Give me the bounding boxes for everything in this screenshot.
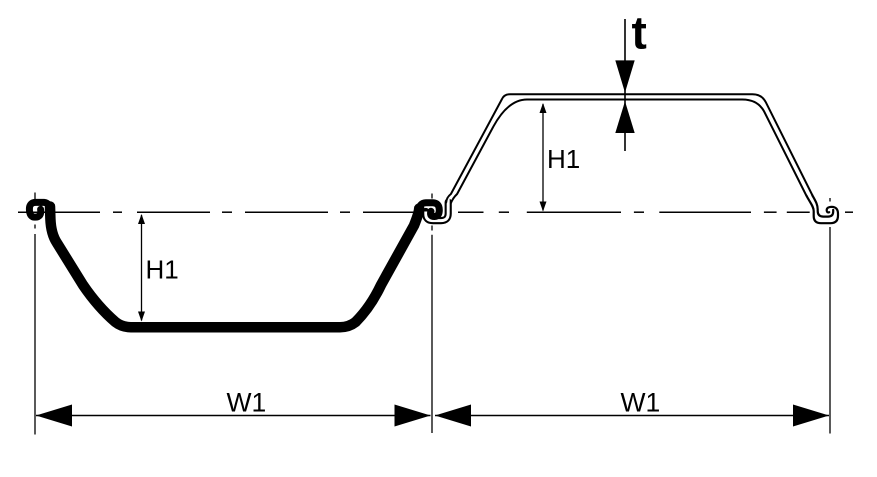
- H1 right top arrow: [540, 103, 547, 113]
- svg-text:H1: H1: [547, 144, 580, 174]
- sheet pile 2 (right, outline): plate inner surface line: [451, 99, 806, 203]
- W1 right arrowhead (points right): [793, 405, 829, 427]
- centerline (dash-dot axis), right part: [458, 211, 853, 213]
- svg-text:H1: H1: [146, 255, 179, 285]
- svg-text:W1: W1: [227, 388, 267, 418]
- H1 left bottom arrow: [138, 312, 145, 322]
- extension line left (x=35): [34, 193, 36, 201]
- svg-text:t: t: [632, 7, 647, 59]
- H1 dimension right: line: [542, 104, 544, 211]
- t lower arrow (points up): [615, 101, 634, 133]
- svg-text:W1: W1: [621, 388, 661, 418]
- sheet pile 2 (right, outline): middle interlock wrap, white core: [426, 197, 448, 221]
- sheet pile 2 (right, outline): plate outer surface line: [446, 94, 812, 202]
- sheet pile 1 (left, solid): middle interlock hook: [419, 203, 439, 217]
- sheet pile 2 (right, outline): middle interlock wrap, black stroke: [426, 202, 448, 221]
- H1 right bottom arrow: [540, 202, 547, 212]
- W1 left arrowhead (points left): [36, 405, 72, 427]
- H1 dimension left: line: [141, 215, 143, 321]
- W1 left-dim right arrowhead (points right): [395, 405, 431, 427]
- W1 dimension line right: [435, 415, 829, 417]
- centerline (dash-dot axis), left part: [18, 211, 414, 213]
- H1 left top arrow: [138, 214, 145, 224]
- extension line right (x=830): [829, 198, 831, 202]
- sheet pile 1 (left, solid): web + bottom flange + web: [50, 207, 419, 328]
- W1 right-dim left arrowhead (points left): [435, 405, 471, 427]
- sheet pile 2 (right, outline): right hook outer line: [807, 196, 839, 223]
- sheet pile 1 (left, solid): left interlock hook: [29, 202, 50, 217]
- t dimension line: [624, 19, 626, 151]
- extension line middle (x=432): [431, 194, 433, 199]
- t upper arrow (points down): [615, 60, 634, 92]
- W1 dimension line left: [36, 415, 431, 417]
- sheet pile 2 (right, outline): right hook inner line: [812, 195, 833, 216]
